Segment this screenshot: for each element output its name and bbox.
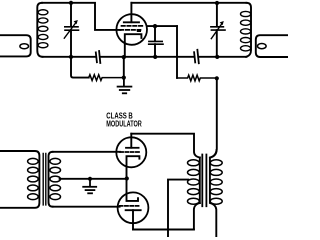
- C5 plates: [211, 27, 225, 30]
- ground GND1: [118, 78, 132, 94]
- output link loop: [256, 35, 288, 57]
- C2 plates: [149, 41, 163, 44]
- V1 cathode: [125, 34, 142, 57]
- V1 control grid (dashed): [120, 29, 141, 31]
- coil L2 turns: [241, 11, 251, 51]
- T2 secondary spine: [210, 150, 217, 237]
- node: bus/riser: [215, 55, 219, 59]
- tank coil L1 spine: [37, 3, 42, 57]
- T1 secondary spine: [49, 152, 53, 207]
- svg-text:MODULATOR: MODULATOR: [106, 118, 142, 128]
- coupling capacitor C3 plates: [96, 51, 101, 63]
- node: R1/cathode: [122, 76, 126, 80]
- grid leak wire from C1 node: [71, 57, 89, 78]
- screen bypass capacitor C2 stem: [154, 26, 156, 41]
- C1 stem bottom: [70, 30, 72, 57]
- V2 cathode: [127, 156, 140, 178]
- T2 secondary turns: [210, 160, 222, 204]
- wire: V3 plate to T2 primary bottom: [133, 229, 194, 231]
- wire: T1 top to V2 grid: [53, 151, 120, 153]
- T2 primary turns: [188, 160, 200, 204]
- output link single turn: [258, 44, 267, 49]
- coupling capacitor C4 plates: [194, 50, 199, 63]
- V3 plate bar: [126, 209, 141, 211]
- node: R2/riser junction: [215, 76, 219, 80]
- input link single turn: [20, 44, 29, 49]
- node: top/C5: [215, 1, 219, 5]
- V1 plate bar: [124, 21, 139, 23]
- cathode down wire: [123, 57, 125, 78]
- variable capacitor C5 stem top: [216, 3, 218, 27]
- V1 beam plate blob: [137, 30, 141, 32]
- B+ center tap wire: [168, 180, 188, 237]
- node: top of C1: [69, 1, 73, 5]
- T2 primary bottom flare: [194, 203, 200, 229]
- T2 primary spine: [199, 158, 201, 204]
- audio input link leads: [0, 151, 39, 208]
- ground GND2: [83, 179, 96, 194]
- V2 plate bar: [126, 147, 139, 149]
- input link loop (antenna coupling): [0, 35, 31, 56]
- node: cathodes junction: [125, 176, 129, 180]
- node: bus/C2: [153, 55, 157, 59]
- T1 core: [43, 154, 46, 205]
- V2 plate lead: [130, 134, 132, 148]
- CLASS B MODULATOR label: [106, 111, 142, 129]
- node: bus/C1: [69, 55, 73, 59]
- V1 screen grid (dashed): [122, 25, 143, 27]
- B+ riser wire (modulated plate feed): [210, 78, 217, 157]
- bus wire segment 1: [43, 56, 96, 58]
- bus wire segment 3: [198, 56, 246, 58]
- wire: T1 bottom to V3 grid: [53, 206, 120, 208]
- resistor R1: [89, 75, 124, 81]
- modulator tube V3 (lower) envelope: [118, 192, 149, 223]
- node: tap/ground: [88, 177, 92, 181]
- node: bus/cathode: [122, 55, 126, 59]
- T1 secondary turns: [50, 158, 61, 199]
- C2 stem bottom: [154, 44, 156, 57]
- V3 plate lead: [132, 210, 134, 229]
- V2 grid (dashed): [120, 151, 140, 153]
- coil L1 turns: [38, 10, 48, 48]
- wire: tank top to grid of V1: [42, 3, 121, 30]
- T2 core: [202, 155, 206, 207]
- plate top wire: [131, 2, 246, 4]
- wire: V2 plate to T2 primary top: [131, 134, 200, 158]
- node: screen/C2: [153, 24, 157, 28]
- resistor R2: [177, 75, 217, 81]
- C5 stem bottom: [216, 30, 218, 57]
- center tap wire: [60, 178, 127, 180]
- tank coil L2 spine: [246, 3, 251, 57]
- variable capacitor C1 stem top: [70, 3, 72, 27]
- V1 plate lead: [130, 3, 132, 22]
- C1 arrow: [64, 22, 76, 38]
- V3 grid (dashed): [120, 205, 140, 207]
- screen feed down wire: [176, 26, 178, 78]
- C5 arrow: [211, 23, 222, 38]
- C1 plates: [65, 27, 79, 30]
- bus wire segment 2: [100, 56, 194, 58]
- RF amplifier tube V1 envelope: [116, 14, 147, 45]
- V1 screen lead wire: [147, 25, 177, 27]
- T1 primary turns: [28, 158, 39, 199]
- modulator tube V2 (upper) envelope: [116, 137, 146, 167]
- V3 cathode: [127, 178, 139, 201]
